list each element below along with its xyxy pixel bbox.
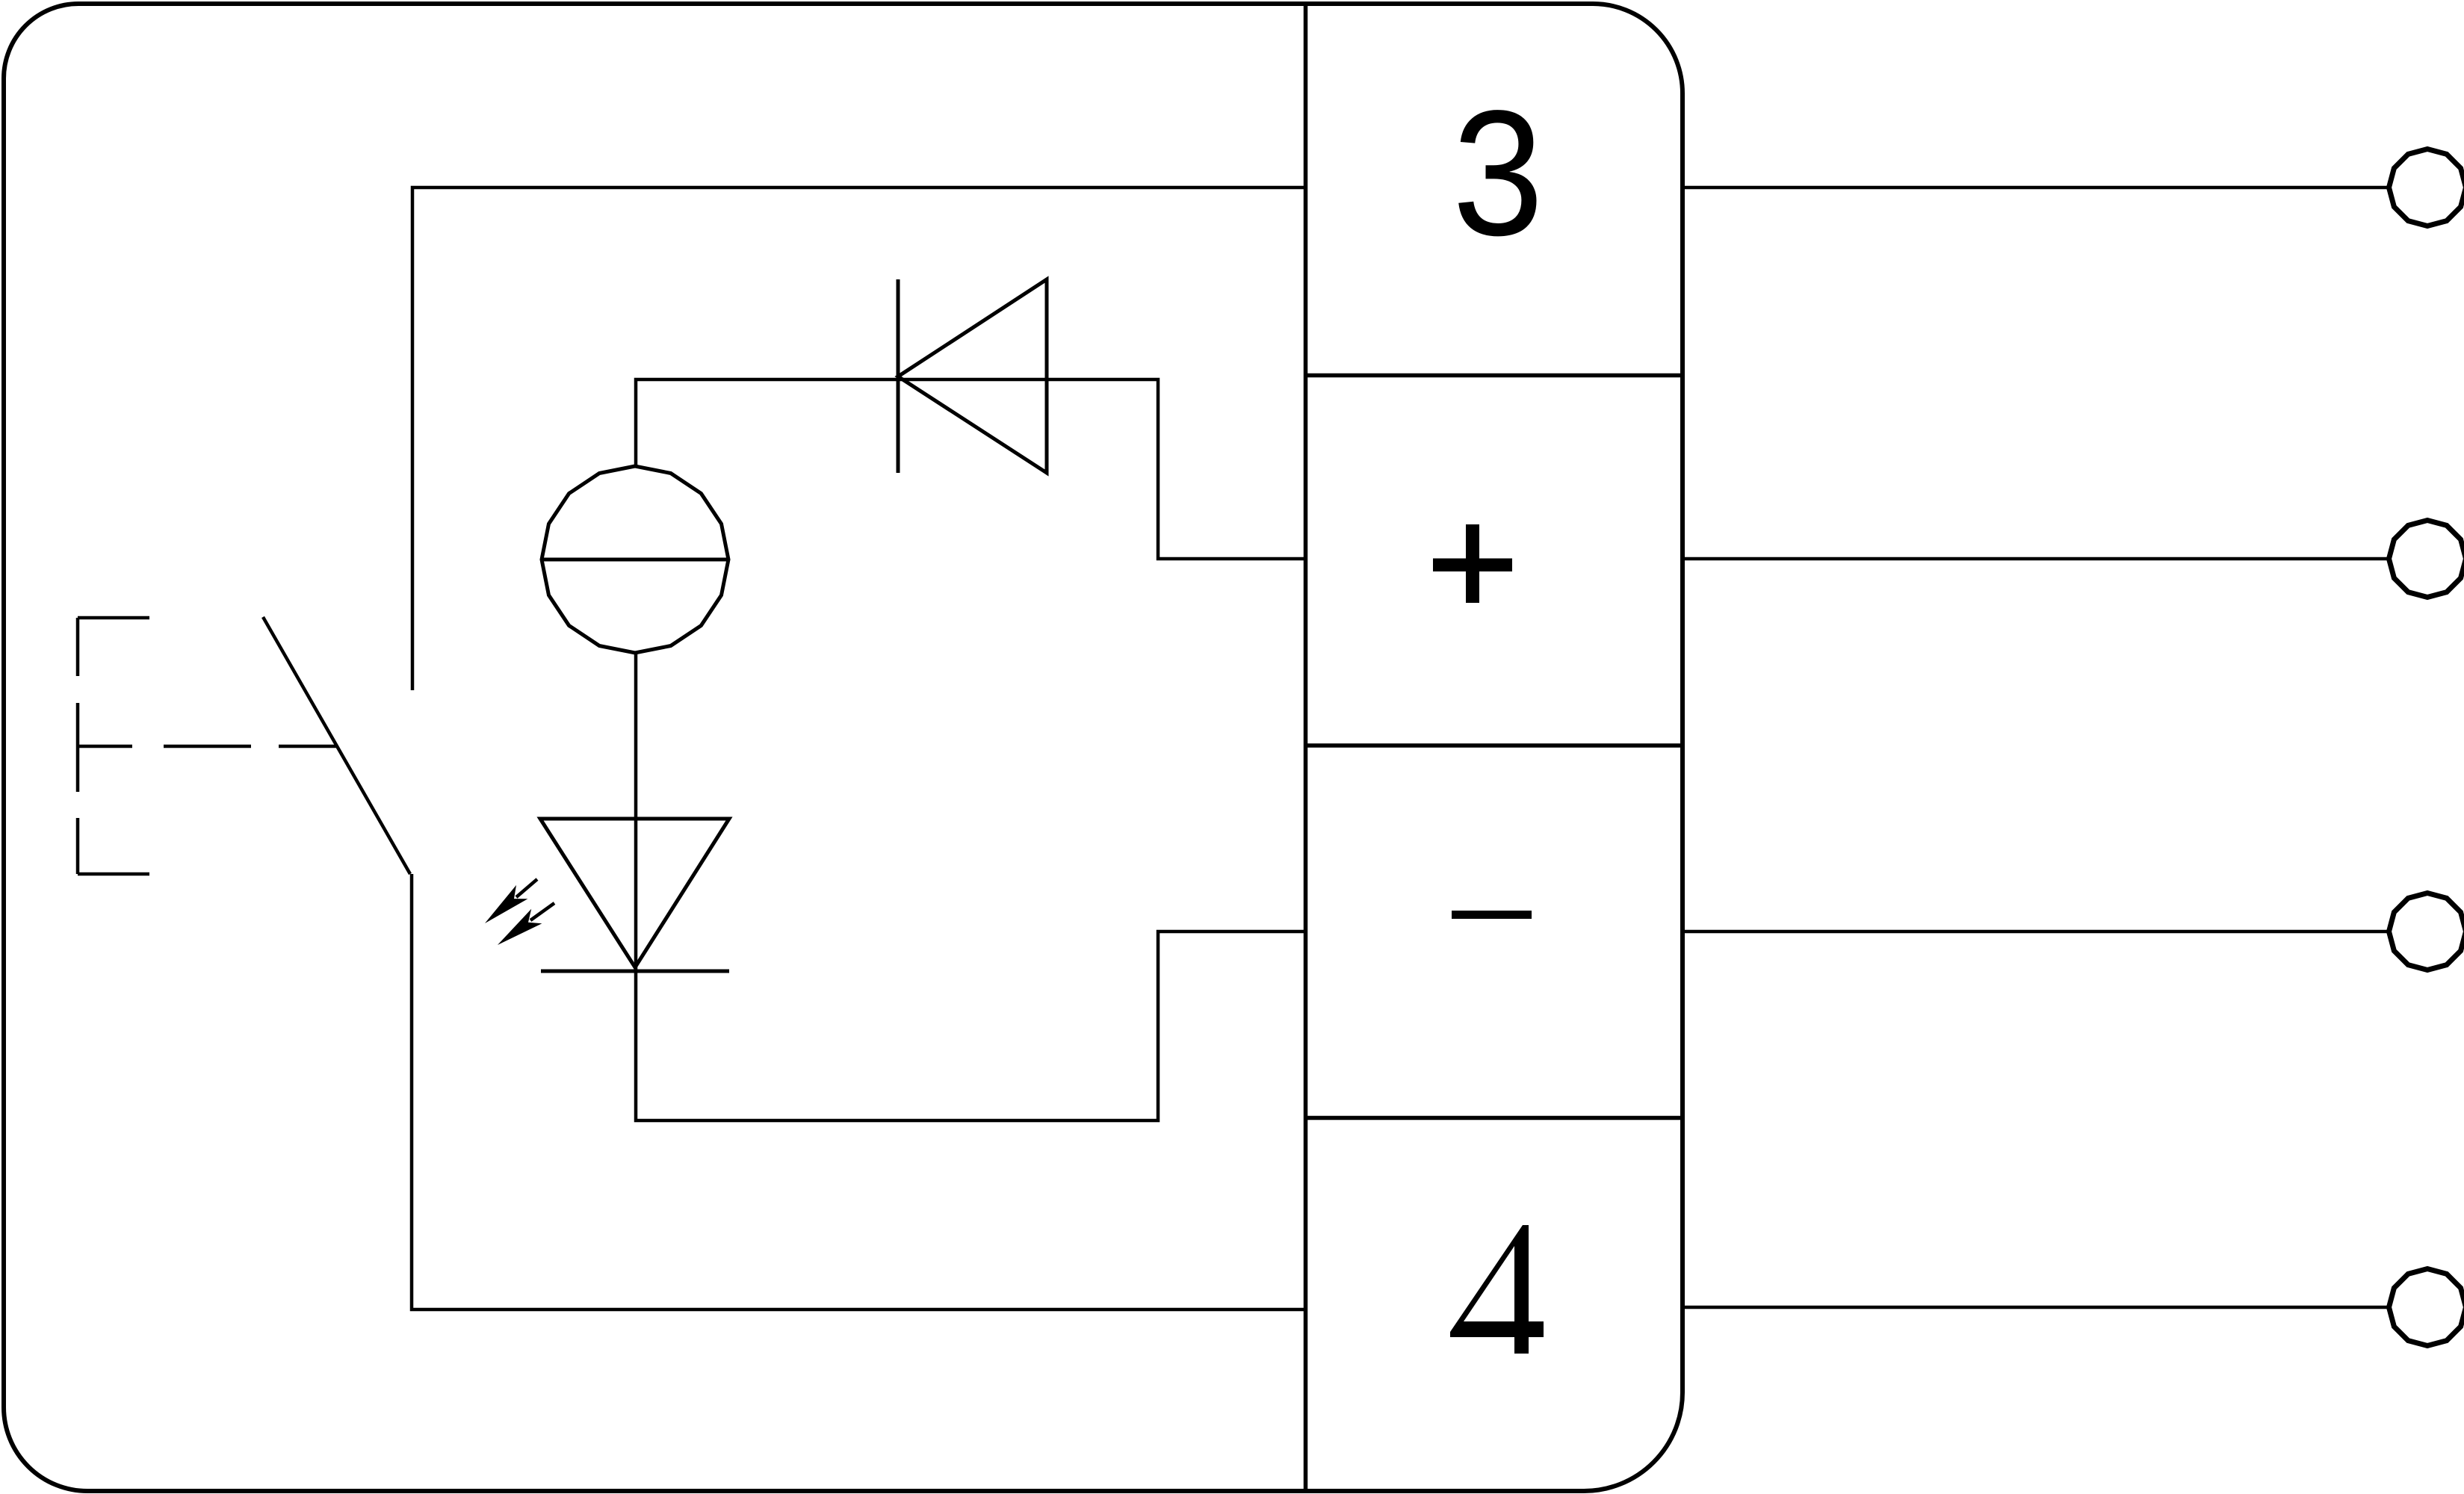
terminal label + (1433, 524, 1512, 603)
wire: diode row (circle top to corner) (636, 379, 1305, 559)
terminal separator +/- (1306, 743, 1683, 748)
wire: terminal + to pin 2 (1683, 557, 2389, 561)
terminal label 4 (1450, 1225, 1544, 1354)
wire: terminal 4 to pin 4 (1683, 1306, 2389, 1309)
pin 3 (2389, 893, 2464, 970)
device outline (rounded enclosure) (4, 4, 1683, 1491)
actuator dashed bracket bottom (78, 872, 149, 876)
pin 4 (2389, 1269, 2464, 1346)
diode D1 (cathode left) (898, 279, 1047, 473)
terminal separator -/4 (1306, 1116, 1683, 1120)
terminal strip left edge (1304, 4, 1308, 1491)
LED light arrow 2 (498, 903, 554, 945)
LED light arrow 1 (485, 879, 537, 923)
pin 2 (2389, 521, 2464, 598)
actuator dashed link to blade (78, 745, 337, 748)
wire: switch pivot down to terminal 4 (412, 874, 1305, 1309)
svg-text:3: 3 (1452, 73, 1544, 273)
LED D2 cathode bar (541, 970, 729, 973)
terminal separator 3/+ (1306, 373, 1683, 378)
terminal label - (1452, 911, 1532, 919)
actuator dashed vertical (76, 618, 80, 874)
wire: terminal 3 left to switch contact (412, 187, 1305, 690)
current source G1 (542, 466, 728, 653)
actuator dashed bracket top (78, 616, 149, 620)
wire: terminal - to pin 3 (1683, 930, 2389, 934)
wire: terminal 3 to pin 1 (1683, 186, 2389, 190)
switch blade (263, 617, 410, 874)
pin 1 (2389, 149, 2464, 226)
LED D2 triangle (540, 819, 729, 967)
wire: circle bottom through LED to terminal - (636, 653, 1305, 1120)
